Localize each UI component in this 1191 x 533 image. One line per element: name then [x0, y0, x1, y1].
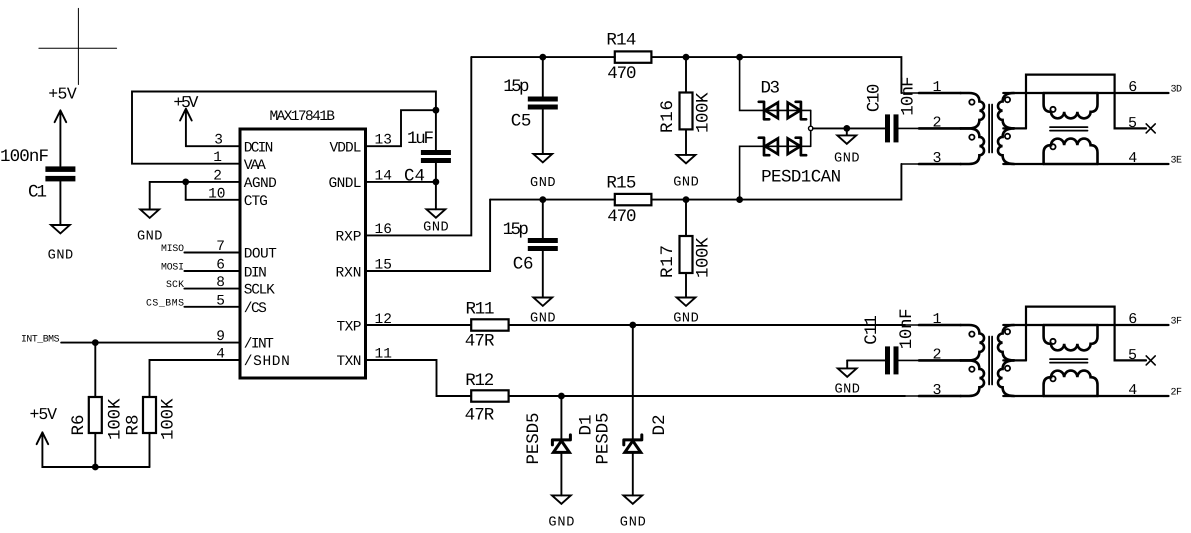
svg-text:TXN: TXN [337, 354, 362, 370]
svg-text:GND: GND [620, 516, 646, 531]
ground (R17) [673, 298, 699, 327]
capacitor C5 [503, 57, 558, 154]
wire D3 lower branch [740, 146, 811, 199]
svg-text:PESD5: PESD5 [524, 413, 544, 465]
wire net RX bottom row [490, 164, 901, 200]
wire D1 drop [560, 396, 562, 440]
svg-text:+5V: +5V [30, 405, 58, 424]
capacitor C4 [404, 129, 451, 187]
node D3 common pin circle [809, 126, 813, 130]
svg-text:CTG: CTG [244, 194, 268, 210]
wire C11 feed [847, 359, 885, 361]
wire SCLK stub [184, 288, 240, 290]
sheet origin crosshair [39, 8, 117, 84]
junction R6 top [92, 339, 99, 346]
wire C1 to ground [59, 181, 61, 225]
T1 secondary center tap line [1003, 127, 1026, 129]
wire TXN pin 11 [366, 360, 906, 396]
svg-text:3D: 3D [1171, 84, 1183, 95]
T1 primary winding B [961, 128, 984, 164]
wire TXP pin 12 [366, 324, 906, 326]
IC U1 left pin numbers [208, 133, 225, 363]
resistor R15 [606, 173, 651, 227]
svg-text:5: 5 [1128, 115, 1137, 132]
T1 pin 2 stub [899, 127, 920, 129]
svg-text:GND: GND [548, 516, 574, 531]
junction AGND/CTG node [182, 179, 189, 186]
junction VDDL node [433, 107, 440, 114]
wire AGND/CTG [150, 182, 240, 210]
svg-text:C6: C6 [513, 255, 534, 275]
IC U1 MAX17841B body [240, 129, 366, 378]
svg-text:SCK: SCK [166, 279, 184, 290]
capacitor C10 [865, 76, 919, 142]
IC U1 left pin names [244, 140, 290, 370]
diode D2 PESD5 [594, 413, 671, 465]
svg-text:GND: GND [137, 229, 163, 244]
svg-text:D2: D2 [650, 415, 670, 436]
svg-text:/SHDN: /SHDN [244, 354, 290, 370]
wire /CS stub [184, 306, 240, 308]
capacitor C6 [503, 200, 558, 298]
IC U1 right pin numbers [375, 133, 392, 363]
wire /SHDN to R8 [150, 360, 241, 397]
T1 secondary top line [1003, 92, 1043, 94]
ground (C4/GNDL) [423, 209, 449, 235]
wire GNDL pin 14 [366, 163, 436, 209]
svg-text:TXP: TXP [337, 320, 362, 336]
svg-text:VAA: VAA [244, 158, 266, 174]
svg-text:1: 1 [932, 79, 941, 96]
svg-text:C10: C10 [865, 84, 885, 113]
svg-text:R12: R12 [465, 371, 494, 391]
svg-text:3: 3 [214, 133, 223, 149]
wire /INT net INT_BMS [61, 342, 240, 344]
ground (D1) [548, 495, 574, 530]
transformer T2 [899, 307, 1169, 400]
wire VDDL node to C4 [435, 110, 437, 150]
T1 primary winding A [961, 93, 984, 128]
svg-text:3: 3 [932, 150, 941, 167]
ground (C11 tap) [834, 360, 860, 397]
T1 pin numbers 1 2 3 [932, 79, 941, 167]
svg-text:GND: GND [834, 383, 860, 398]
T1 secondary winding B [998, 128, 1014, 164]
capacitor C1 [0, 147, 75, 203]
resistor R14 [606, 30, 651, 84]
svg-text:GNDL: GNDL [329, 176, 362, 192]
svg-text:INT_BMS: INT_BMS [21, 333, 60, 344]
svg-text:DOUT: DOUT [244, 247, 277, 263]
svg-text:DCIN: DCIN [244, 140, 273, 156]
svg-text:1uF: 1uF [407, 129, 434, 149]
junction D2 tap [629, 322, 636, 329]
ground (C5) [530, 154, 556, 191]
svg-text:PESD5: PESD5 [594, 413, 614, 465]
svg-text:RXP: RXP [336, 230, 362, 246]
wire D3 common vertical [810, 110, 812, 146]
svg-text:R17: R17 [658, 245, 678, 278]
junction R16 top [683, 54, 690, 61]
T1 secondary winding A [998, 93, 1014, 128]
wire D1 to ground [560, 452, 562, 495]
svg-text:C1: C1 [28, 183, 47, 203]
junction D1 tap [558, 393, 565, 400]
wire D3 common to C10 [813, 127, 885, 129]
svg-text:CS_BMS: CS_BMS [146, 297, 184, 308]
junction C10 ground tap [843, 125, 850, 132]
T1 center tap route to pin 5 [1026, 75, 1146, 129]
T1 core [989, 105, 992, 153]
svg-text:3E: 3E [1171, 155, 1183, 166]
resistor R17 [658, 200, 714, 298]
svg-text:/CS: /CS [244, 301, 267, 317]
svg-text:MOSI: MOSI [161, 262, 184, 273]
svg-text:GND: GND [423, 221, 449, 236]
svg-text:100nF: 100nF [0, 147, 49, 167]
svg-text:AGND: AGND [244, 176, 277, 192]
svg-text:MISO: MISO [161, 243, 184, 254]
svg-text:RXN: RXN [336, 266, 362, 282]
resistor R6 [69, 343, 126, 467]
T1 secondary bottom line [1003, 163, 1043, 165]
svg-text:DIN: DIN [244, 266, 267, 282]
ground (C6) [530, 298, 556, 327]
svg-text:2F: 2F [1171, 387, 1183, 398]
svg-text:MAX17841B: MAX17841B [270, 109, 336, 125]
ground (D2) [620, 495, 646, 530]
svg-text:10nF: 10nF [897, 308, 917, 349]
svg-text:15p: 15p [503, 220, 529, 240]
svg-text:PESD1CAN: PESD1CAN [761, 167, 841, 187]
svg-text:4: 4 [1128, 150, 1137, 167]
svg-text:R11: R11 [466, 299, 495, 319]
ground (R16) [673, 155, 699, 191]
D3 lower right diode [788, 138, 806, 156]
svg-text:2: 2 [213, 168, 222, 184]
diode D1 PESD5 [524, 413, 597, 465]
svg-text:100K: 100K [159, 398, 179, 440]
junction D3 bottom [736, 196, 743, 203]
junction GNDL node [433, 179, 440, 186]
wire RXN pin 15 [366, 200, 491, 271]
svg-text:GND: GND [530, 176, 556, 191]
D3 lower left diode [759, 138, 778, 156]
transformer T1 [899, 75, 1169, 168]
wire DIN stub [184, 270, 240, 272]
svg-text:15p: 15p [503, 77, 529, 97]
ground (AGND) [137, 210, 163, 245]
power +5V (C1) [48, 85, 77, 166]
junction R6 bottom [92, 464, 99, 471]
svg-text:C5: C5 [511, 112, 532, 132]
svg-text:R6: R6 [69, 415, 89, 436]
wire net RX top row [471, 57, 901, 93]
junction C5 top [539, 54, 546, 61]
diode array D3 PESD1CAN [740, 57, 842, 200]
svg-text:100K: 100K [106, 398, 126, 440]
svg-text:47R: 47R [465, 405, 495, 425]
T1 choke bottom winding [1044, 139, 1098, 164]
wire D2 drop [632, 325, 634, 440]
svg-text:1: 1 [213, 150, 222, 166]
svg-text:R15: R15 [606, 173, 636, 193]
junction D3 top [736, 54, 743, 61]
wire VAA loop to VDDL node [132, 92, 436, 164]
T1 pin 4 wire [1098, 163, 1169, 165]
svg-text:2: 2 [932, 114, 941, 131]
svg-text:D3: D3 [761, 78, 781, 98]
svg-text:10nF: 10nF [899, 76, 919, 115]
svg-text:R14: R14 [606, 30, 636, 50]
svg-text:R16: R16 [658, 100, 678, 133]
svg-text:R8: R8 [124, 415, 144, 436]
resistor R12 [465, 371, 509, 425]
wire DCIN pin 3 [186, 145, 240, 147]
T1 choke top winding [1044, 93, 1098, 118]
junction C6 top [539, 196, 546, 203]
svg-text:GND: GND [834, 151, 860, 166]
resistor R8 [124, 397, 179, 467]
T1 pin 3 stub [901, 163, 919, 165]
wire VDDL pin 13 [366, 110, 436, 146]
ground (C1) [48, 225, 74, 264]
T1 pin 6 wire [1098, 92, 1169, 94]
wire +5V rail bottom [42, 432, 149, 467]
resistor R16 [658, 57, 714, 155]
D3 upper left diode [759, 102, 778, 120]
svg-text:470: 470 [607, 64, 636, 84]
svg-text:100K: 100K [694, 92, 714, 133]
T1 choke top polarity dot [1050, 107, 1055, 112]
svg-text:3F: 3F [1171, 316, 1183, 327]
svg-text:10: 10 [208, 186, 225, 202]
svg-text:47R: 47R [465, 331, 495, 351]
wire RXP pin 16 [366, 57, 472, 235]
T1 choke bottom polarity dot [1050, 144, 1055, 149]
svg-text:C4: C4 [404, 167, 425, 187]
ground (C10 tap) [834, 128, 860, 166]
capacitor C11 [862, 308, 917, 374]
svg-text:+5V: +5V [48, 85, 77, 104]
power +5V (DCIN) [173, 93, 198, 146]
resistor R11 [465, 299, 509, 351]
power +5V (pull-up rail) [30, 405, 58, 444]
T1 secondary polarity dots [1005, 97, 1010, 102]
svg-text:VDDL: VDDL [330, 140, 362, 156]
wire D3 upper branch [740, 57, 811, 110]
svg-text:/INT: /INT [244, 337, 274, 353]
svg-text:100K: 100K [694, 237, 714, 278]
svg-text:SCLK: SCLK [244, 283, 275, 299]
junction R17 top [683, 196, 690, 203]
svg-text:+5V: +5V [173, 93, 198, 112]
IC U1 right pin names [329, 140, 362, 370]
T1 pin 1 stub [901, 92, 919, 94]
svg-text:GND: GND [673, 176, 699, 191]
wire D2 to ground [632, 452, 634, 495]
T1 choke core [1050, 127, 1088, 131]
svg-text:470: 470 [607, 207, 636, 227]
svg-text:C11: C11 [862, 315, 882, 345]
wire DOUT stub [184, 252, 240, 254]
T1 no-connect X pin 5 [1146, 124, 1155, 133]
D3 upper right diode [788, 102, 806, 120]
T1 primary polarity dots [969, 100, 974, 105]
svg-text:6: 6 [1128, 79, 1137, 96]
svg-text:GND: GND [48, 249, 74, 264]
